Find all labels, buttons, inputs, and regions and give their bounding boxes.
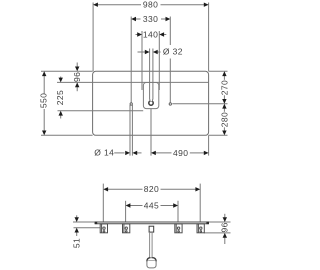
svg-text:96: 96: [220, 222, 230, 232]
svg-text:490: 490: [173, 148, 188, 158]
svg-text:445: 445: [144, 200, 159, 210]
svg-text:Ø 32: Ø 32: [163, 47, 183, 57]
svg-text:96: 96: [72, 72, 82, 82]
svg-text:225: 225: [55, 90, 65, 105]
svg-text:Ø 14: Ø 14: [94, 148, 114, 158]
svg-text:51: 51: [72, 238, 82, 248]
svg-text:140: 140: [143, 29, 158, 39]
svg-text:280: 280: [219, 112, 229, 127]
svg-text:550: 550: [38, 93, 48, 108]
svg-text:980: 980: [143, 0, 158, 10]
svg-text:330: 330: [143, 14, 158, 24]
svg-text:270: 270: [219, 80, 229, 95]
svg-text:820: 820: [144, 184, 159, 194]
